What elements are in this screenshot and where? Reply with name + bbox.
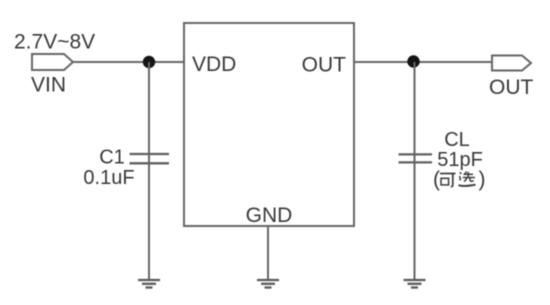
wire output bbox=[354, 61, 492, 63]
svg-text:GND: GND bbox=[246, 204, 293, 227]
port VIN bbox=[32, 54, 73, 70]
svg-text:2.7V~8V: 2.7V~8V bbox=[14, 31, 95, 54]
label optional hanzi ke bbox=[440, 174, 456, 187]
label optional hanzi xuan bbox=[459, 172, 476, 186]
svg-text:VIN: VIN bbox=[31, 74, 66, 97]
wire GND pin bbox=[267, 226, 269, 280]
svg-text:C1: C1 bbox=[99, 147, 125, 169]
svg-text:OUT: OUT bbox=[489, 76, 534, 99]
svg-text:(: ( bbox=[433, 168, 440, 191]
svg-text:VDD: VDD bbox=[192, 53, 236, 76]
ic U1 bbox=[184, 23, 354, 226]
wire input bbox=[73, 61, 184, 63]
capacitor C1 bbox=[130, 154, 170, 163]
capacitor CL bbox=[399, 154, 433, 162]
svg-text:OUT: OUT bbox=[302, 54, 347, 77]
wire C1 branch bbox=[148, 62, 150, 280]
svg-text:51pF: 51pF bbox=[437, 149, 483, 171]
ground middle bbox=[257, 280, 279, 288]
svg-text:): ) bbox=[479, 168, 486, 191]
ground left bbox=[138, 280, 160, 288]
svg-text:0.1uF: 0.1uF bbox=[83, 167, 134, 189]
node input junction bbox=[143, 56, 155, 68]
svg-text:CL: CL bbox=[444, 129, 470, 151]
port OUT bbox=[492, 56, 531, 71]
wire CL branch bbox=[414, 62, 416, 280]
node output junction bbox=[407, 55, 419, 67]
ground right bbox=[404, 280, 426, 288]
